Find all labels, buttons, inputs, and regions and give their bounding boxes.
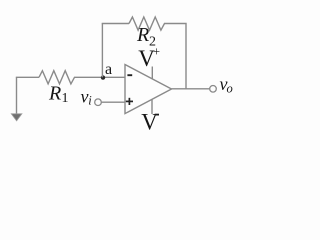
V+ supply pin xyxy=(151,67,153,80)
svg-text:o: o xyxy=(227,82,233,96)
ground xyxy=(11,77,22,121)
svg-text:a: a xyxy=(105,61,112,78)
svg-text:1: 1 xyxy=(62,91,69,106)
svg-text:R: R xyxy=(136,24,149,46)
wire: R2 right side down to output rail xyxy=(169,24,186,89)
wire: top-left corner to R2 xyxy=(102,23,129,26)
op-amp inverting input marker (-) xyxy=(127,74,132,76)
resistor R1 xyxy=(39,71,79,84)
wire: R1 to node a xyxy=(79,76,125,78)
V- supply pin xyxy=(151,99,153,114)
wire: node a up to feedback rail xyxy=(101,24,103,78)
svg-text:+: + xyxy=(153,44,160,59)
input terminal vi (open circle) xyxy=(95,99,102,106)
svg-text:V: V xyxy=(141,110,158,131)
wire: op-amp output xyxy=(172,88,210,90)
resistor R2 xyxy=(129,17,169,30)
output terminal vo (open circle) xyxy=(210,86,217,93)
wire: vi terminal to non-inverting input xyxy=(101,101,125,103)
op-amp non-inverting input marker (+) xyxy=(126,98,133,105)
svg-text:R: R xyxy=(48,83,61,105)
node a (junction dot) xyxy=(101,75,105,79)
wire: ground corner to resistor R1 xyxy=(17,76,40,78)
op-amp U1 xyxy=(125,65,172,114)
svg-text:i: i xyxy=(88,93,92,107)
